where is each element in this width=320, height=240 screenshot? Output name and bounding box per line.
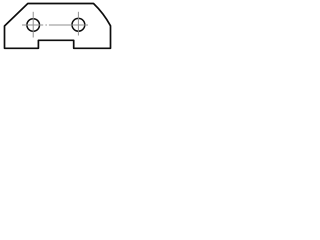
centerline horizontal C2: [49, 24, 88, 26]
centerline vertical C2: [77, 12, 79, 36]
centerline vertical C1: [32, 12, 34, 38]
centerline dash dot: [45, 24, 47, 26]
hole circle C2: [72, 18, 85, 31]
centerline horizontal C1: [22, 24, 43, 26]
plate outline: [5, 4, 111, 49]
hole circle C1: [27, 19, 40, 32]
